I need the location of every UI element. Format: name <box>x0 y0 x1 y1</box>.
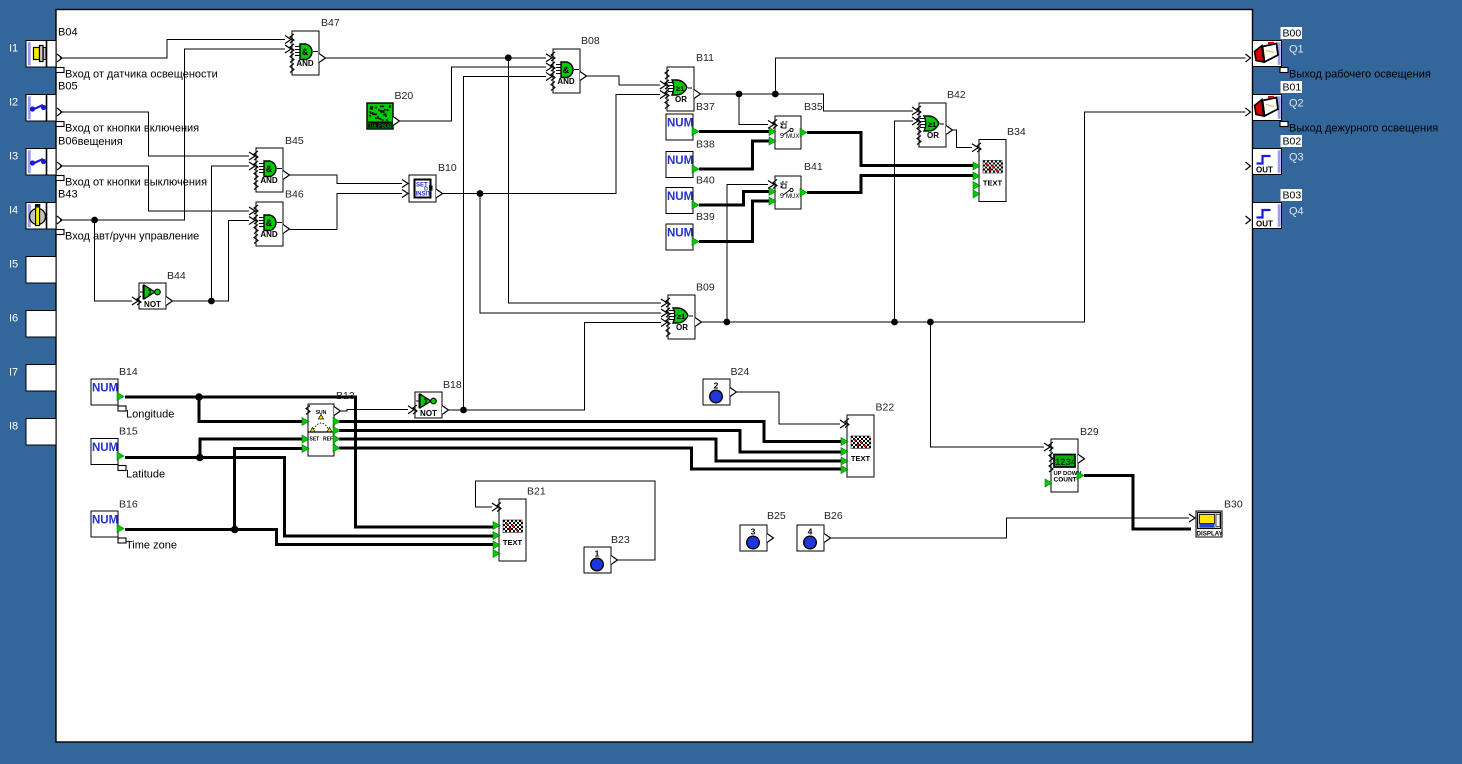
wire B09 branch to B42.in2 <box>895 121 914 322</box>
latching relay B10 <box>409 175 436 202</box>
svg-text:B11: B11 <box>696 52 714 64</box>
svg-text:≥1: ≥1 <box>677 312 685 321</box>
AND gate B45 <box>256 148 283 192</box>
output connector Q2 <box>1253 95 1282 121</box>
wire B39.out to B41.A2 <box>699 201 770 242</box>
svg-text:3: 3 <box>751 527 756 537</box>
svg-text:≥1: ≥1 <box>928 120 936 129</box>
node on B47 output wire <box>505 54 512 61</box>
wire I4 branch to B44.in <box>95 220 132 301</box>
input arrow B08.in3 <box>546 73 552 81</box>
svg-text:AND: AND <box>260 230 278 239</box>
soft key B26 <box>797 525 824 551</box>
svg-text:NOT: NOT <box>420 409 437 418</box>
comment square Q2 <box>1280 122 1288 127</box>
NOT gate B18 <box>415 392 442 418</box>
svg-text:1234: 1234 <box>1055 457 1077 468</box>
display block B30 <box>1196 511 1222 537</box>
wire B11 branch to Q1 <box>775 58 1245 94</box>
wire B13.out3 to B22.P3 <box>339 439 842 461</box>
svg-text:MUX: MUX <box>786 194 799 200</box>
input arrow B08.in1 <box>546 54 552 62</box>
svg-text:COUNT: COUNT <box>1054 477 1077 484</box>
svg-text:I4: I4 <box>9 205 18 217</box>
input arrow B08.in2 <box>546 63 552 71</box>
label box B01 <box>1281 81 1303 93</box>
svg-text:&: & <box>302 47 309 57</box>
wire B11 branch to B35.S <box>739 94 768 124</box>
numeric constant B38 <box>666 152 693 178</box>
svg-text:B25: B25 <box>767 510 786 522</box>
svg-text:B22: B22 <box>876 402 895 414</box>
input arrow B29.in1 <box>1044 443 1050 451</box>
svg-text:B15: B15 <box>119 426 138 438</box>
input arrow B18.in <box>408 406 414 414</box>
node on B44 output wire <box>208 298 215 305</box>
svg-text:B00: B00 <box>1283 28 1302 40</box>
numeric constant B16 <box>91 511 118 537</box>
svg-text:Вход от датчика освещености: Вход от датчика освещености <box>65 69 218 81</box>
white backing for B06 <box>57 135 78 146</box>
comment square I3 <box>56 176 64 181</box>
svg-text:&: & <box>266 218 273 228</box>
wire B44.out to B46.in2 <box>173 221 249 302</box>
input arrow B11.in2 <box>660 81 666 89</box>
svg-text:B03: B03 <box>1283 190 1302 202</box>
comment square B15 <box>118 466 126 471</box>
input arrow B46.in2 <box>249 217 255 225</box>
input connector I8 <box>26 419 56 446</box>
soft key B24 <box>703 379 730 405</box>
message text block B20 <box>367 103 393 129</box>
wire B10.out to B11.in3 <box>443 95 660 194</box>
wire B14 branch to B13.P1 <box>199 397 303 422</box>
wire B13.out to B18.in <box>341 410 408 411</box>
numeric constant B39 <box>666 224 693 250</box>
wire B16.out to B21.P3 <box>125 530 494 545</box>
comment square I4 <box>56 230 64 235</box>
svg-text:I3: I3 <box>9 151 18 163</box>
node B11 wire to Q1 <box>772 91 779 98</box>
wire B15 branch to B13.P2 <box>200 439 303 458</box>
label box B00 <box>1281 27 1303 39</box>
svg-text:B35: B35 <box>804 101 823 113</box>
label box B02 <box>1281 135 1303 147</box>
svg-text:B47: B47 <box>321 17 340 29</box>
svg-text:B09: B09 <box>696 282 715 294</box>
wire B26.out to B30.in <box>830 518 1189 538</box>
svg-text:B42: B42 <box>947 89 966 101</box>
wire B13.out4 to B22.P4 <box>339 448 842 469</box>
svg-text:1: 1 <box>424 396 429 406</box>
svg-text:9: 9 <box>780 193 784 200</box>
wire B15.out to B21.P2 <box>125 458 494 537</box>
soft key B25 <box>740 525 767 551</box>
up-down counter B29 <box>1051 439 1078 492</box>
svg-text:NUM: NUM <box>667 155 693 167</box>
input arrow B45.in2 <box>249 162 255 170</box>
wire B13.out2 to B22.P2 <box>339 431 842 453</box>
svg-text:Time zone: Time zone <box>126 540 177 552</box>
svg-text:B44: B44 <box>167 270 186 282</box>
message text B22 <box>847 415 874 477</box>
svg-text:INSIT: INSIT <box>416 192 432 198</box>
wire I2 to B45.in1 <box>60 112 249 156</box>
svg-text:B34: B34 <box>1007 126 1026 138</box>
input connector I1 <box>26 41 56 68</box>
input arrow B21.En <box>492 503 498 511</box>
wire I1 to B47.in1 <box>60 40 285 59</box>
wire B18.out to B09.in3 <box>448 323 661 411</box>
svg-text:OR: OR <box>675 95 687 104</box>
node on B15 wire <box>196 454 204 462</box>
svg-text:1: 1 <box>595 549 600 559</box>
input connector I6 <box>26 311 56 338</box>
wire B38.out to B35.A2 <box>699 141 770 169</box>
multiplexer B35 <box>775 116 801 149</box>
svg-text:I8: I8 <box>9 421 18 433</box>
svg-text:B40: B40 <box>696 175 715 187</box>
svg-text:I5: I5 <box>9 259 18 271</box>
svg-text:B02: B02 <box>1283 136 1302 148</box>
input arrow B44.in <box>132 297 138 305</box>
wire B09.out to Q2 <box>701 112 1246 322</box>
svg-text:B05: B05 <box>58 81 78 93</box>
wire B13.out1 to B22.P1 <box>339 422 842 442</box>
svg-text:Longitude: Longitude <box>126 409 174 421</box>
wire B20.out to B08.in2 <box>400 67 546 121</box>
svg-text:B26: B26 <box>824 510 843 522</box>
wire B42.out to B34.En <box>952 130 972 148</box>
svg-text:REF: REF <box>323 437 333 443</box>
svg-text:AND: AND <box>260 176 278 185</box>
svg-text:B37: B37 <box>696 101 715 113</box>
label box B03 <box>1281 189 1303 201</box>
svg-text:B29: B29 <box>1080 426 1099 438</box>
svg-text:DISPLAY: DISPLAY <box>1197 531 1224 538</box>
svg-text:MUX: MUX <box>786 134 799 140</box>
AND gate B47 <box>292 31 319 75</box>
svg-text:B13: B13 <box>336 390 355 402</box>
svg-text:Выход рабочего освещения: Выход рабочего освещения <box>1289 69 1431 81</box>
svg-text:TEXT: TEXT <box>851 454 871 463</box>
wire B44 branch to B45.in2 <box>211 166 249 301</box>
wire B10 branch to B09.in2 <box>480 194 661 314</box>
svg-text:&: & <box>563 65 570 75</box>
wire B46.out to B10.in2 <box>290 194 402 230</box>
svg-text:NUM: NUM <box>667 118 693 130</box>
numeric constant B40 <box>666 188 693 214</box>
svg-text:OR: OR <box>676 323 688 332</box>
svg-text:Вход авт/ручн управление: Вход авт/ручн управление <box>65 231 199 243</box>
svg-text:Вход от кнопки выключения: Вход от кнопки выключения <box>65 177 207 189</box>
node on B18 output wire <box>460 407 467 414</box>
svg-text:B01: B01 <box>1283 82 1302 94</box>
input arrow B09.in1 <box>661 299 667 307</box>
numeric constant B37 <box>666 114 693 140</box>
comment square Q1 <box>1280 68 1288 73</box>
node B09 wire x727 <box>723 319 730 326</box>
wire B47.out to B08.in1 <box>326 57 546 59</box>
svg-text:NUM: NUM <box>667 228 693 240</box>
node on B16 wire <box>231 526 239 534</box>
svg-text:I1: I1 <box>9 43 18 55</box>
node B09 wire x894 <box>891 319 898 326</box>
wire B40.out to B41.A1 <box>699 192 770 206</box>
input arrow B47.in2 <box>285 45 291 53</box>
AND gate B46 <box>256 202 283 246</box>
input connector I2 <box>26 95 56 122</box>
input arrow B45.in1 <box>249 152 255 160</box>
wire B41.out to B34.P2 <box>807 176 974 193</box>
svg-text:B21: B21 <box>527 486 546 498</box>
wire B47 branch to B09.in1 <box>508 58 661 303</box>
comment square I2 <box>56 122 64 127</box>
node on B10 output wire <box>477 190 484 197</box>
OR gate B42 <box>919 103 946 147</box>
svg-text:OUT: OUT <box>1256 220 1273 229</box>
wire I4 to B47.in2 <box>60 49 285 220</box>
input arrow B47.in1 <box>285 36 291 44</box>
input arrow B46.in1 <box>249 207 255 215</box>
svg-text:4: 4 <box>808 527 813 537</box>
wire B14.out to B21.P1 <box>125 397 494 527</box>
comment square B14 <box>118 406 126 411</box>
svg-text:Q1: Q1 <box>1289 44 1304 56</box>
message text B21 <box>499 499 526 561</box>
wire B45.out to B10.in1 <box>290 175 402 184</box>
svg-text:Вход от кнопки включения: Вход от кнопки включения <box>65 123 199 135</box>
input arrow B10.in1 <box>402 180 408 188</box>
input arrow B30.in <box>1189 514 1195 522</box>
wire B11.out to B42.in1 <box>701 94 913 111</box>
svg-text:I6: I6 <box>9 313 18 325</box>
input connector I3 <box>26 149 56 176</box>
svg-text:B38: B38 <box>696 139 715 151</box>
svg-text:NUM: NUM <box>92 515 118 527</box>
input arrow B10.in2 <box>402 190 408 198</box>
input connector I7 <box>26 365 56 392</box>
message text B34 <box>979 140 1006 202</box>
svg-text:&: & <box>266 164 273 174</box>
svg-text:B08: B08 <box>581 35 600 47</box>
output connector Q4 <box>1253 203 1282 229</box>
comment square I1 <box>56 68 64 73</box>
wire I3 to B46.in1 <box>60 166 249 211</box>
svg-text:AND: AND <box>557 77 575 86</box>
svg-text:B20: B20 <box>395 90 414 102</box>
output connector Q3 <box>1253 149 1282 175</box>
OR gate B09 <box>668 295 695 339</box>
wire B29.out to B30.P1 <box>1084 476 1191 530</box>
svg-text:Q2: Q2 <box>1289 98 1304 110</box>
svg-text:TEXT: TEXT <box>503 538 523 547</box>
wire B08.out to B11.in2 <box>587 76 660 85</box>
svg-text:B18: B18 <box>443 379 462 391</box>
svg-text:B16: B16 <box>119 499 138 511</box>
svg-text:B14: B14 <box>119 366 138 378</box>
svg-text:B39: B39 <box>696 211 715 223</box>
input arrow B42.in1 <box>912 107 918 115</box>
numeric constant B14 <box>91 379 118 405</box>
wire B35.out to B34.P1 <box>807 133 974 166</box>
wire B24.out to B22.En <box>736 392 840 424</box>
svg-text:B43: B43 <box>58 189 78 201</box>
svg-text:I2: I2 <box>9 97 18 109</box>
wire B09 branch to B29.in1 <box>930 322 1044 447</box>
svg-text:B23: B23 <box>611 534 630 546</box>
wire B09 branch to B41.S <box>727 185 768 323</box>
svg-text:B10: B10 <box>438 162 457 174</box>
svg-text:OR: OR <box>927 131 939 140</box>
node on B11 output wire <box>736 91 743 98</box>
svg-text:NUM: NUM <box>92 383 118 395</box>
svg-text:B30: B30 <box>1224 499 1243 511</box>
output connector Q1 <box>1253 41 1282 67</box>
input connector I4 <box>26 203 56 230</box>
svg-text:9: 9 <box>780 133 784 140</box>
svg-text:SET: SET <box>310 437 320 443</box>
input arrow B09.in2 <box>661 309 667 317</box>
multiplexer B41 <box>775 176 801 209</box>
svg-text:≥1: ≥1 <box>676 84 684 93</box>
node on I4 wire <box>91 217 98 224</box>
soft key B23 <box>584 547 611 573</box>
input arrow B34.En <box>972 144 978 152</box>
input arrow B11.in3 <box>660 91 666 99</box>
wire B37.out to B35.A1 <box>699 130 770 133</box>
input arrow B42.in2 <box>912 117 918 125</box>
astronomical clock B13 <box>308 404 334 456</box>
svg-text:TEXT: TEXT <box>983 179 1003 188</box>
svg-text:Latitude: Latitude <box>126 469 165 481</box>
svg-text:B06: B06 <box>58 136 78 148</box>
svg-text:B46: B46 <box>285 189 304 201</box>
svg-text:1: 1 <box>148 287 153 297</box>
svg-text:TIII P800: TIII P800 <box>369 123 392 129</box>
numeric constant B15 <box>91 439 118 465</box>
AND gate B08 <box>553 49 580 93</box>
NOT gate B44 <box>139 283 166 309</box>
svg-text:OUT: OUT <box>1256 166 1273 175</box>
svg-text:Q4: Q4 <box>1289 206 1304 218</box>
comment square B16 <box>118 538 126 543</box>
wire B18 branch to B08.in3 <box>464 77 547 411</box>
input arrow B09.in3 <box>661 319 667 327</box>
input arrow B35.S <box>768 120 774 128</box>
input arrow B41.S <box>768 181 774 189</box>
svg-text:B41: B41 <box>804 161 823 173</box>
wire B16 branch to B13.P3 <box>235 449 303 530</box>
node B09 wire x930 <box>927 319 934 326</box>
svg-text:2: 2 <box>714 381 719 391</box>
svg-text:Q3: Q3 <box>1289 152 1304 164</box>
svg-text:NOT: NOT <box>144 300 161 309</box>
OR gate B11 <box>667 67 694 111</box>
svg-text:B24: B24 <box>731 366 750 378</box>
input arrow B22.En <box>840 420 846 428</box>
wire B23.out to B21.En <box>475 481 655 560</box>
svg-text:I7: I7 <box>9 367 18 379</box>
svg-text:B04: B04 <box>58 27 78 39</box>
svg-text:Выход дежурного освещения: Выход дежурного освещения <box>1289 123 1438 135</box>
white drawing canvas <box>56 10 1253 743</box>
svg-text:NUM: NUM <box>92 442 118 454</box>
svg-text:B45: B45 <box>285 135 304 147</box>
node on B14 wire <box>195 393 203 401</box>
input connector I5 <box>26 257 56 284</box>
svg-text:AND: AND <box>296 59 314 68</box>
svg-text:NUM: NUM <box>667 191 693 203</box>
